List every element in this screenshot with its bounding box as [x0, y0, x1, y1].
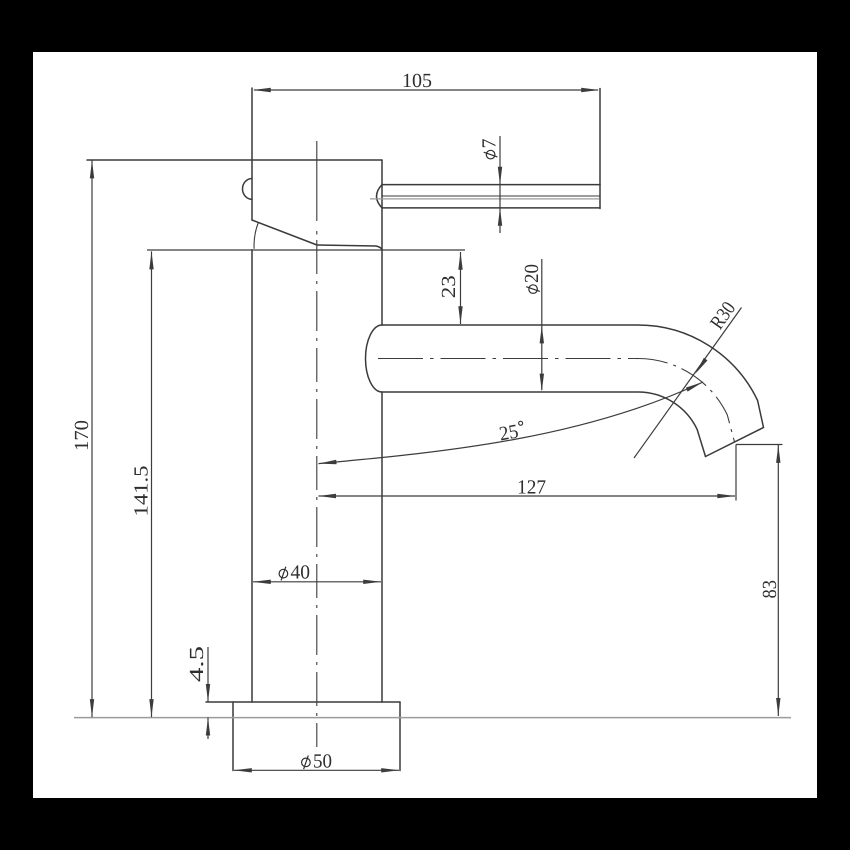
svg-text:7: 7: [479, 139, 501, 149]
dim phi40 line: [253, 581, 381, 583]
vertical centerline of column (upper): [316, 141, 318, 236]
handle lever rod bottom edge: [382, 207, 600, 209]
dim 141.5 line: [151, 251, 153, 717]
dim phi40 arrows: [253, 580, 271, 584]
spout centerline bend part: [638, 359, 735, 443]
dim phi50 line: [234, 769, 399, 771]
spout left end cap arc: [366, 325, 383, 392]
faucet head left edge + 105-dim extension: [251, 88, 253, 220]
dim 105 line: [254, 89, 598, 91]
25deg arc arrows: [319, 460, 337, 464]
label 127: [517, 476, 546, 498]
svg-text:141.5: 141.5: [130, 466, 152, 517]
label 141.5 (rotated): [130, 466, 152, 517]
dim 23 line: [460, 252, 462, 324]
dim phi20 arrows: [540, 325, 544, 343]
svg-text:50: 50: [313, 750, 332, 772]
spout top edge and outer bend curve: [382, 325, 764, 428]
label phi40: [279, 562, 310, 584]
dim 170 arrows: [90, 160, 94, 178]
label phi50: [302, 750, 332, 772]
svg-text:R30: R30: [706, 298, 740, 334]
svg-text:25: 25: [498, 420, 521, 445]
svg-text:40: 40: [291, 562, 311, 584]
dim 141.5 arrows: [149, 251, 153, 269]
handle rod right end + 105-dim extension: [599, 89, 601, 209]
handle lever rod top edge: [382, 184, 600, 186]
svg-text:83: 83: [759, 580, 781, 599]
column right edge below spout: [381, 392, 383, 702]
handle lever rod middle line: [382, 195, 600, 197]
dim 23 arrows: [458, 252, 462, 270]
dim 83 line: [777, 445, 779, 716]
faucet head top edge (with 170-dim extension): [87, 159, 382, 161]
base plate left edge + phi50 extension: [232, 702, 234, 771]
label 105: [402, 70, 432, 92]
handle rod left end cap: [377, 185, 383, 208]
dim 127 line: [319, 495, 736, 497]
dim phi7 arrows: [498, 167, 502, 185]
head right edge + spout upper column edge: [381, 160, 383, 325]
label 23 (rotated): [438, 275, 460, 298]
dim 127 arrows: [318, 494, 336, 498]
svg-text:4.5: 4.5: [186, 646, 208, 682]
dim 4.5 lines: [207, 647, 209, 739]
extension line for 127 at spout tip: [735, 445, 737, 501]
svg-text:127: 127: [517, 476, 546, 498]
handle tilt arc at head: [254, 223, 258, 249]
dim 4.5 arrows: [206, 684, 210, 702]
head slanted bottom-left edge: [252, 220, 317, 245]
spout outlet end face: [706, 428, 764, 457]
svg-text:170: 170: [71, 420, 93, 451]
label 4.5 (rotated): [186, 646, 208, 682]
dim 170 line: [91, 160, 93, 717]
dim phi50 arrows: [234, 768, 252, 772]
base plate right edge + phi50 extension: [399, 702, 401, 771]
spout centerline straight part: [378, 358, 638, 360]
mounting surface line: [74, 717, 791, 719]
head bottom edge: [317, 245, 382, 250]
R30 leader line: [634, 308, 742, 459]
R30 arrow: [695, 358, 707, 374]
label R30 (rotated): [706, 298, 740, 334]
base plate top edge (with 4.5-dim extension): [206, 701, 400, 703]
dim phi20 line: [541, 259, 543, 390]
spout bottom edge and inner bend curve: [382, 392, 706, 457]
dim phi7 line: [499, 136, 501, 233]
dim 105 arrows: [253, 88, 271, 92]
svg-text:23: 23: [438, 275, 460, 298]
handle rod grey centerline: [370, 198, 599, 200]
svg-text:105: 105: [402, 70, 432, 92]
25deg angle arc: [319, 382, 704, 464]
label phi7 (rotated): [479, 139, 501, 159]
label phi20 (rotated): [521, 264, 543, 293]
label 83 (rotated): [759, 580, 781, 599]
handle pivot boss semicircle: [243, 179, 253, 200]
svg-text:20: 20: [521, 264, 543, 283]
column left edge: [251, 250, 253, 702]
label 25deg: [498, 419, 526, 445]
label 170 (rotated): [71, 420, 93, 451]
dim 83 arrows: [776, 445, 780, 463]
extension line at head bottom level (141.5 / 23): [147, 249, 465, 251]
extension line for 83 at spout outlet: [736, 444, 783, 446]
vertical centerline of column (lower): [316, 240, 318, 747]
